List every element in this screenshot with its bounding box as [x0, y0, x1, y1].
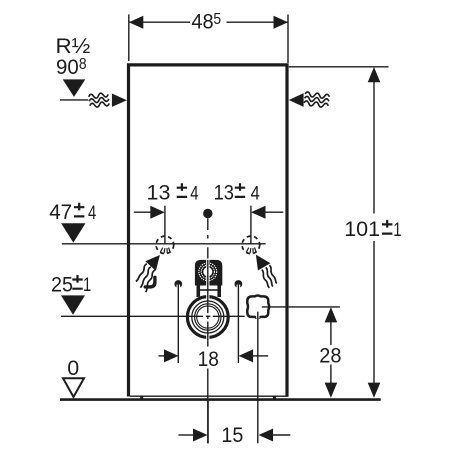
bracket slot [206, 259, 209, 295]
flush pipe sleeve outline [247, 296, 269, 318]
vertical centerline below 18 [207, 369, 209, 444]
height marker line R1/2 [60, 99, 88, 101]
height marker triangle R1/2 [63, 79, 86, 97]
dim 28 line lower [330, 365, 332, 384]
svg-text:4: 4 [190, 183, 198, 204]
screw point right [235, 280, 243, 288]
flex hose arrow left [145, 255, 160, 271]
dim 48.5 arrow right [274, 16, 289, 29]
label 28 [319, 344, 341, 368]
dim 101 arrow down [368, 383, 381, 398]
dim 13 right arrow [251, 206, 266, 219]
dim 48.5 arrow left [129, 16, 144, 29]
screw point left line [177, 285, 179, 363]
height marker triangle 47 [61, 223, 85, 242]
svg-text:15: 15 [221, 423, 243, 447]
flush pipe crosshair right [262, 306, 340, 308]
label 18 [198, 348, 219, 371]
supply waves left [88, 92, 109, 108]
svg-text:13: 13 [147, 181, 171, 205]
centerline slot bottom of flush bend [206, 334, 209, 340]
centerline dashes below node [207, 218, 209, 230]
dim 28 arrow up [325, 307, 338, 322]
foot left [140, 396, 143, 400]
label R 1/2 90^8 [56, 33, 91, 79]
dim 15 extension left [207, 400, 209, 443]
dim 48.5 line left segment [129, 21, 190, 23]
center point node [203, 209, 212, 218]
label 0 [67, 356, 79, 380]
screw point right line [237, 285, 239, 363]
dim 15 line right [273, 434, 290, 436]
label 15 [221, 423, 243, 447]
panel bottom edge [130, 395, 289, 397]
flex hose waves right [262, 265, 277, 288]
svg-text:R½: R½ [56, 33, 91, 58]
dim 13 extension line right [250, 206, 252, 244]
svg-text:25: 25 [51, 273, 73, 297]
svg-text:8: 8 [79, 57, 87, 74]
zero level open triangle [63, 378, 84, 397]
svg-text:48: 48 [191, 10, 213, 34]
svg-text:5: 5 [213, 11, 221, 28]
dim 101 extension line top [289, 66, 389, 68]
dim 15 line left [178, 434, 194, 436]
dim 18 arrow right [239, 349, 254, 362]
panel outline [129, 65, 288, 397]
svg-text:18: 18 [198, 348, 219, 371]
svg-text:47: 47 [49, 201, 72, 224]
flush bend ring 2 [192, 301, 224, 333]
bracket U1 head [195, 260, 222, 286]
spray marks right [246, 248, 256, 254]
dim 101 line upper [373, 80, 375, 214]
flush pipe crosshair down [256, 315, 259, 318]
bracket hole rings [199, 263, 217, 281]
dim 13 left line [134, 211, 151, 213]
bracket leg right [217, 286, 221, 298]
dim 28 arrow down [325, 383, 338, 398]
dim 18 line right [253, 355, 268, 357]
foot right [273, 396, 276, 400]
flex hose fitting left [145, 277, 155, 287]
dim 18 arrow left [164, 349, 179, 362]
dim 101 line lower [373, 241, 375, 384]
flex hose arrow right [256, 255, 271, 271]
flush bend outer ring [186, 295, 230, 339]
vertical centerline through bracket and bend [207, 260, 209, 313]
dim 48.5 line right segment [227, 21, 289, 23]
svg-text:101: 101 [344, 217, 380, 241]
dim 101 arrow up [368, 67, 381, 82]
height line 25 segments [61, 315, 203, 317]
dim 13 left arrow [150, 206, 165, 219]
water connection dashed circle left [156, 236, 174, 254]
svg-text:90: 90 [56, 55, 79, 79]
svg-text:4: 4 [88, 202, 96, 223]
water connection dashed circle right [242, 236, 260, 254]
spray marks left [160, 248, 170, 254]
dim 48.5 extension line right [287, 14, 289, 63]
screw point left [174, 280, 182, 288]
dim 48.5 extension line left [128, 14, 130, 61]
label 13+-4 left [147, 181, 199, 205]
svg-text:1: 1 [83, 274, 91, 295]
dim 13 extension line left [164, 206, 166, 244]
supply arrow left [112, 94, 127, 107]
label 101+-1 [344, 217, 401, 241]
svg-text:28: 28 [319, 344, 341, 368]
svg-text:4: 4 [251, 182, 260, 203]
dim 13 right line [265, 211, 283, 213]
dim 28 line upper [330, 321, 332, 345]
svg-text:13: 13 [214, 181, 234, 205]
svg-text:0: 0 [67, 356, 79, 380]
flush bend ring 4 [197, 306, 219, 328]
bracket leg left [197, 286, 201, 298]
dim 18 line left [159, 355, 166, 357]
height line 47 [62, 243, 266, 245]
label 48^5 [191, 10, 221, 34]
label 13+-4 right [214, 181, 260, 205]
flex hose waves left [136, 264, 155, 292]
floor line [60, 398, 381, 401]
supply waves right [304, 92, 330, 108]
supply arrow right [289, 93, 304, 107]
flush bend ring 3 [195, 304, 221, 330]
centerline slot top of flush bend [206, 294, 209, 300]
label 47+-4 [49, 201, 96, 224]
svg-text:1: 1 [393, 219, 401, 240]
label 25+-1 [51, 273, 91, 297]
height marker triangle 25 [61, 295, 85, 314]
dim 15 arrow left [193, 429, 208, 442]
bracket crossbar [197, 289, 222, 291]
dim 15 arrow right [259, 429, 274, 442]
